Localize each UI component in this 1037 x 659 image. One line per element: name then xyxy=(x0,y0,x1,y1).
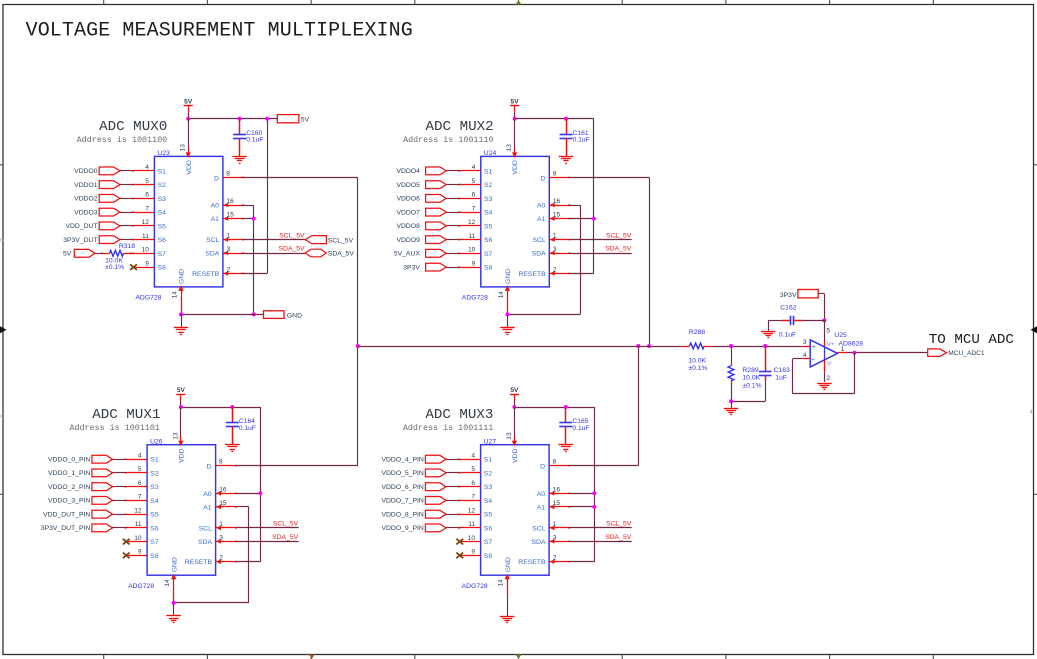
ground below op-amp xyxy=(817,384,832,390)
MUX3 wire A0 to pullup xyxy=(570,493,595,495)
svg-text:5: 5 xyxy=(472,178,476,185)
wire 3P3V to op-amp V+ xyxy=(818,294,824,321)
input port VDDO_1_PIN xyxy=(48,469,113,477)
svg-text:RESETB: RESETB xyxy=(518,271,546,278)
svg-text:11: 11 xyxy=(135,521,142,528)
MUX1 wire tag to S3 xyxy=(113,486,125,488)
MUX3 node 5V stem junction xyxy=(512,405,516,409)
wire C162 left stem to ground xyxy=(768,320,790,331)
MUX3 wire tag to S2 xyxy=(446,472,458,474)
MUX1 pin S7 (pin 10) stub xyxy=(125,541,147,543)
svg-text:1: 1 xyxy=(219,521,223,528)
svg-text:13: 13 xyxy=(180,144,187,152)
svg-text:U23: U23 xyxy=(157,150,170,157)
MUX3 wire D output xyxy=(570,465,639,467)
svg-text:7: 7 xyxy=(471,494,475,501)
power port 3P3V xyxy=(780,290,818,299)
svg-text:SDA_5V: SDA_5V xyxy=(279,246,306,253)
svg-text:SDA_5V: SDA_5V xyxy=(605,246,632,253)
wire R289/C163 bottom rail xyxy=(731,401,765,403)
svg-text:3P3V: 3P3V xyxy=(780,292,797,299)
svg-text:VDDO_0_PIN: VDDO_0_PIN xyxy=(48,457,90,464)
svg-text:ADG728: ADG728 xyxy=(135,295,161,302)
MUX1 wire 5V top rail xyxy=(181,407,261,409)
svg-text:VDDO1: VDDO1 xyxy=(74,182,98,189)
MUX3 pin S5 (pin 12) stub xyxy=(458,513,480,515)
MUX0 pin S2 (pin 5) stub xyxy=(132,184,154,186)
svg-text:ADG728: ADG728 xyxy=(462,295,488,302)
MUX3 wire VDD pin stem xyxy=(512,407,517,446)
svg-text:S6: S6 xyxy=(484,525,493,532)
MUX1 pin S1 (pin 4) stub xyxy=(125,458,147,460)
svg-text:4: 4 xyxy=(472,164,476,171)
MUX2 wire cap upper stem xyxy=(566,119,568,134)
wire R289 bottom to rail xyxy=(731,381,733,401)
svg-text:0.1uF: 0.1uF xyxy=(246,137,263,144)
input port VDDO9 xyxy=(396,236,446,244)
svg-text:V-: V- xyxy=(827,361,833,368)
MUX2 pin S1 (pin 4) stub xyxy=(458,170,480,172)
MUX1 wire A0 to pullup xyxy=(236,493,260,495)
MUX2 pin S5 (pin 12) stub xyxy=(458,225,480,227)
svg-text:SDA: SDA xyxy=(532,251,546,258)
MUX1 wire tag to S6 xyxy=(113,527,125,529)
MUX2 C161 value label xyxy=(573,130,590,144)
svg-text:5V_AUX: 5V_AUX xyxy=(394,251,421,258)
svg-text:9: 9 xyxy=(145,260,149,267)
ADG728 mux U27 xyxy=(462,438,549,590)
svg-text:1: 1 xyxy=(553,521,557,528)
MUX2 wire tag to S2 xyxy=(446,184,458,186)
MUX2 5V power symbol xyxy=(510,99,519,113)
svg-text:VDDO_6_PIN: VDDO_6_PIN xyxy=(381,484,423,491)
MUX0 wire tag to S2 xyxy=(120,184,132,186)
svg-text:3: 3 xyxy=(803,339,807,346)
op-amp U25 AD8628 xyxy=(810,340,837,368)
MUX3 pin RESETB (pin 2) stub xyxy=(549,559,570,564)
MUX2 node GND stem junction xyxy=(505,312,509,316)
svg-text:11: 11 xyxy=(142,233,149,240)
MUX2 wire D output xyxy=(570,177,649,179)
input port VDDO_9_PIN xyxy=(381,524,446,532)
svg-text:3: 3 xyxy=(227,246,231,253)
svg-text:8: 8 xyxy=(553,170,557,177)
MUX3 wire GND pin stem xyxy=(505,574,510,597)
MUX3 C165 value label xyxy=(572,418,589,432)
wire R288 to node xyxy=(704,346,802,348)
MUX2 wire A1 to pullup xyxy=(570,218,594,220)
capacitor C163 1uF xyxy=(759,372,771,376)
svg-text:+: + xyxy=(812,342,817,351)
svg-text:ADC MUX0: ADC MUX0 xyxy=(99,119,167,135)
svg-text:C: C xyxy=(0,414,4,420)
svg-text:S1: S1 xyxy=(150,457,159,464)
node output/feedback junction xyxy=(852,351,856,355)
MUX1 wire RESETB to 5V xyxy=(236,561,260,563)
svg-text:VDD_DUT: VDD_DUT xyxy=(65,223,97,230)
MUX3 wire 5V top rail xyxy=(514,407,594,409)
MUX2 pin S7 (pin 10) stub xyxy=(458,253,480,255)
MUX2 pin S3 (pin 6) stub xyxy=(458,198,480,200)
svg-text:VDDO_8_PIN: VDDO_8_PIN xyxy=(381,512,423,519)
power port GND (MUX0 rail) xyxy=(264,311,303,320)
MUX1 wire GND rail xyxy=(174,602,249,604)
svg-text:14: 14 xyxy=(171,291,178,299)
node R288/R289 junction xyxy=(729,344,733,348)
MUX0 node junction xyxy=(252,312,256,316)
MUX2 wire SDA net xyxy=(570,253,632,255)
MUX0 wire A1 to pulldown xyxy=(244,218,254,220)
svg-text:5V: 5V xyxy=(184,99,193,106)
svg-text:7: 7 xyxy=(472,205,476,212)
svg-text:10.0K: 10.0K xyxy=(688,357,706,364)
MUX3 pin S1 (pin 4) stub xyxy=(458,458,480,460)
MUX1 pin S6 (pin 11) stub xyxy=(125,527,147,529)
MUX3 wire 5V pullup vertical xyxy=(594,407,596,562)
input port VDDO4 xyxy=(396,167,446,175)
svg-text:VOLTAGE MEASUREMENT MULTIPLEXI: VOLTAGE MEASUREMENT MULTIPLEXING xyxy=(26,20,413,43)
svg-text:2: 2 xyxy=(553,555,557,562)
MUX2 wire A0 pulldown vertical xyxy=(580,205,582,314)
ground below C162 xyxy=(761,332,776,338)
MUX2 wire tag to S5 xyxy=(446,225,458,227)
svg-text:A1: A1 xyxy=(537,504,546,511)
svg-text:±0.1%: ±0.1% xyxy=(742,383,761,390)
svg-text:0.1uF: 0.1uF xyxy=(572,425,589,432)
svg-text:R289: R289 xyxy=(742,367,758,374)
MUX2 pin S8 (pin 9) stub xyxy=(458,266,480,268)
MUX3 wire tag to S4 xyxy=(446,500,458,502)
capacitor C165 0.1uF xyxy=(559,423,572,427)
MUX1 pin RESETB (pin 2) stub xyxy=(216,559,237,564)
svg-text:SCL_5V: SCL_5V xyxy=(606,232,632,239)
svg-text:ADG728: ADG728 xyxy=(128,583,154,590)
MUX1 wire A0 pullup vertical xyxy=(260,407,262,562)
svg-text:VDD_DUT_PIN: VDD_DUT_PIN xyxy=(43,512,90,519)
MUX2 wire tag to S4 xyxy=(446,212,458,214)
MUX1 5V power symbol xyxy=(176,387,185,401)
svg-text:S7: S7 xyxy=(158,251,167,258)
svg-text:3P3V_DUT: 3P3V_DUT xyxy=(63,237,97,244)
MUX2 wire 5V stem to rail xyxy=(514,112,516,119)
svg-text:S7: S7 xyxy=(484,251,493,258)
resistor R289 10.0K xyxy=(728,366,734,381)
MUX2 node cap junction xyxy=(564,117,568,121)
svg-text:SCL: SCL xyxy=(532,525,545,532)
svg-text:9: 9 xyxy=(471,549,475,556)
MUX2 wire tag to S3 xyxy=(446,198,458,200)
input port VDDO5 xyxy=(396,181,446,189)
MUX1 C164 value label xyxy=(239,418,256,432)
MUX2 node 5V stem junction xyxy=(513,117,517,121)
input port 5V_AUX xyxy=(394,249,446,257)
ground below R289 xyxy=(724,409,739,415)
svg-text:SCL: SCL xyxy=(199,525,212,532)
svg-text:S3: S3 xyxy=(150,484,159,491)
resistor R288 10.0K xyxy=(690,343,705,349)
svg-text:A0: A0 xyxy=(537,491,546,498)
MUX1 pin SCL (pin 1) stub xyxy=(216,526,237,531)
svg-text:2: 2 xyxy=(219,555,223,562)
input port VDD_DUT_PIN xyxy=(43,510,112,518)
svg-text:A1: A1 xyxy=(211,216,220,223)
svg-text:±0.1%: ±0.1% xyxy=(688,365,707,372)
svg-text:A0: A0 xyxy=(203,491,212,498)
svg-text:A1: A1 xyxy=(537,216,546,223)
MUX2 pin S6 (pin 11) stub xyxy=(458,239,480,241)
resistor R318 xyxy=(110,250,124,256)
svg-text:5: 5 xyxy=(826,328,830,335)
MUX1 wire GND drop xyxy=(173,603,175,616)
svg-text:5: 5 xyxy=(471,466,475,473)
svg-text:5V: 5V xyxy=(301,117,310,124)
MUX0 wire 5V stem to rail xyxy=(188,112,190,119)
svg-text:VDDO_3_PIN: VDDO_3_PIN xyxy=(48,498,90,505)
svg-text:S8: S8 xyxy=(484,265,493,272)
MUX0 pin RESETB (pin 2) stub xyxy=(223,271,244,276)
input port 3P3V xyxy=(403,263,446,271)
svg-text:S1: S1 xyxy=(484,457,493,464)
svg-text:S4: S4 xyxy=(484,498,493,505)
svg-text:VDDO4: VDDO4 xyxy=(396,168,420,175)
MUX1 node cap junction xyxy=(230,405,234,409)
MUX2 wire SCL net xyxy=(570,239,632,241)
wire C162 right stem xyxy=(794,320,824,322)
svg-text:15: 15 xyxy=(219,500,227,507)
MUX2 wire 5V top rail xyxy=(515,118,594,120)
svg-text:4: 4 xyxy=(145,164,149,171)
MUX3 wire 5V stem to rail xyxy=(514,401,516,408)
MUX1 wire tag to S5 xyxy=(113,514,125,516)
svg-text:RESETB: RESETB xyxy=(192,271,220,278)
svg-text:1: 1 xyxy=(553,233,557,240)
svg-text:11: 11 xyxy=(468,521,475,528)
svg-text:15: 15 xyxy=(553,500,561,507)
svg-text:GND: GND xyxy=(505,557,512,572)
svg-text:U27: U27 xyxy=(484,438,497,445)
svg-text:S5: S5 xyxy=(484,512,493,519)
MUX3 pin S2 (pin 5) stub xyxy=(458,472,480,474)
MUX1 pin A0 (pin 16) stub xyxy=(216,491,237,496)
svg-text:S5: S5 xyxy=(158,223,167,230)
MUX1 pin S5 (pin 12) stub xyxy=(125,513,147,515)
svg-text:D: D xyxy=(214,175,219,182)
svg-text:SDA_5V: SDA_5V xyxy=(328,251,355,258)
MUX0 wire GND pin stem xyxy=(178,285,183,314)
MUX0 pin S1 (pin 4) stub xyxy=(132,170,154,172)
svg-text:5V: 5V xyxy=(511,99,520,106)
MUX0 pin SDA (pin 3) stub xyxy=(223,251,244,256)
MUX0 pin S4 (pin 7) stub xyxy=(132,211,154,213)
svg-text:VDDO_2_PIN: VDDO_2_PIN xyxy=(48,484,90,491)
MUX0 wire R318 to S7 xyxy=(124,253,133,255)
svg-text:V+: V+ xyxy=(827,341,835,348)
MUX0 wire VDD pin stem xyxy=(186,119,191,158)
MUX1 wire tag to S1 xyxy=(113,459,125,461)
wire main analog bus xyxy=(358,346,683,348)
MUX0 node cap junction xyxy=(238,117,242,121)
MUX0 wire GND rail xyxy=(181,314,264,316)
input port VDDO_8_PIN xyxy=(381,510,446,518)
MUX2 pin S2 (pin 5) stub xyxy=(458,184,480,186)
MUX0 wire 5V top rail xyxy=(188,118,277,120)
svg-text:S8: S8 xyxy=(484,553,493,560)
ground MUX3 xyxy=(500,617,515,623)
MUX0 5V power symbol xyxy=(184,99,193,113)
MUX3 5V power symbol xyxy=(510,387,519,401)
input port 3P3V_DUT_PIN xyxy=(41,524,113,532)
MUX3 pin A1 (pin 15) stub xyxy=(549,505,570,510)
svg-text:4: 4 xyxy=(471,453,475,460)
capacitor C161 0.1uF xyxy=(560,135,573,139)
svg-text:8: 8 xyxy=(226,170,230,177)
svg-text:6: 6 xyxy=(472,192,476,199)
svg-text:GND: GND xyxy=(505,269,512,284)
MUX1 wire D output xyxy=(236,465,357,467)
svg-text:S6: S6 xyxy=(158,237,167,244)
svg-text:1uF: 1uF xyxy=(775,375,787,382)
MUX0 wire RESETB to 5V xyxy=(244,273,268,275)
svg-text:ADG728: ADG728 xyxy=(462,583,488,590)
svg-text:7: 7 xyxy=(138,494,142,501)
svg-text:U24: U24 xyxy=(484,150,497,157)
svg-text:VDD: VDD xyxy=(179,448,186,462)
svg-text:VDDO_4_PIN: VDDO_4_PIN xyxy=(381,457,423,464)
svg-text:S2: S2 xyxy=(484,470,493,477)
input port VDDO8 xyxy=(396,222,446,230)
svg-text:VDDO_1_PIN: VDDO_1_PIN xyxy=(48,470,90,477)
svg-text:11: 11 xyxy=(468,233,475,240)
MUX1 pin A1 (pin 15) stub xyxy=(216,505,237,510)
port SDA_5V tag xyxy=(305,249,354,258)
svg-text:SCL: SCL xyxy=(532,237,545,244)
svg-text:3: 3 xyxy=(553,246,557,253)
svg-text:A1: A1 xyxy=(203,504,212,511)
C163 labels xyxy=(774,367,790,381)
wire bottom rail to ground xyxy=(731,401,733,408)
MUX1 wire tag to S2 xyxy=(113,472,125,474)
input port VDDO1 xyxy=(74,181,120,189)
svg-text:14: 14 xyxy=(498,579,505,587)
node C163 junction xyxy=(763,344,767,348)
svg-text:GND: GND xyxy=(171,557,178,572)
svg-text:A0: A0 xyxy=(211,203,220,210)
MUX3 wire RESETB to 5V xyxy=(570,561,595,563)
svg-text:SCL_5V: SCL_5V xyxy=(279,232,305,239)
MUX0 wire tag to S5 xyxy=(120,225,132,227)
svg-text:S4: S4 xyxy=(158,210,167,217)
svg-text:SDA: SDA xyxy=(198,539,212,546)
MUX1 no-connect X on S7 xyxy=(123,539,130,545)
MUX2 wire tag to S1 xyxy=(446,170,458,172)
svg-text:ADC MUX2: ADC MUX2 xyxy=(426,119,494,135)
capacitor C164 0.1uF xyxy=(226,423,239,427)
capacitor C162 0.1uF xyxy=(791,316,794,325)
svg-text:6: 6 xyxy=(138,480,142,487)
MUX1 wire cap upper stem xyxy=(232,407,234,422)
MUX1 node 5V stem junction xyxy=(179,405,183,409)
MUX1 wire cap lower stem xyxy=(232,426,234,444)
ground below C161 xyxy=(559,157,574,164)
svg-text:VDD: VDD xyxy=(512,160,519,174)
svg-text:S2: S2 xyxy=(484,182,493,189)
MUX0 wire SCL net xyxy=(244,239,305,241)
MUX2 wire D drop to bus xyxy=(649,177,651,346)
svg-text:VDDO2: VDDO2 xyxy=(74,196,98,203)
capacitor C160 0.1uF xyxy=(233,135,246,139)
MUX0 no-connect X on S8 xyxy=(130,264,137,270)
MUX3 no-connect X on S8 xyxy=(456,553,463,559)
input port VDDO_3_PIN xyxy=(48,497,113,505)
svg-text:10: 10 xyxy=(468,247,476,254)
svg-text:VDDO_9_PIN: VDDO_9_PIN xyxy=(381,525,423,532)
wire bus red stub into R288 xyxy=(682,346,689,348)
svg-text:Address is 1001110: Address is 1001110 xyxy=(403,135,493,145)
MUX3 wire SDA net xyxy=(570,541,632,543)
MUX3 wire tag to S3 xyxy=(446,486,458,488)
svg-text:D: D xyxy=(540,464,545,471)
svg-text:U25: U25 xyxy=(834,332,847,339)
svg-text:5V: 5V xyxy=(510,387,519,394)
svg-text:12: 12 xyxy=(134,508,142,515)
svg-text:S8: S8 xyxy=(150,553,159,560)
MUX1 pin D (pin 8) stub xyxy=(216,465,237,467)
input port VDDO_0_PIN xyxy=(48,455,113,463)
svg-text:6: 6 xyxy=(145,192,149,199)
svg-text:U26: U26 xyxy=(150,438,163,445)
MUX3 pin S8 (pin 9) stub xyxy=(458,555,480,557)
power port 5V (MUX0 rail) xyxy=(277,115,309,124)
wire op-amp output stub xyxy=(837,352,848,354)
R318 labels 10.0K ±0.1% xyxy=(105,243,135,271)
MUX0 pin A1 (pin 15) stub xyxy=(223,216,244,221)
MUX0 wire 5V tag to R318 xyxy=(95,253,110,255)
svg-text:Address is 1001111: Address is 1001111 xyxy=(403,423,493,433)
input port VDDO_7_PIN xyxy=(381,497,446,505)
svg-text:S5: S5 xyxy=(484,223,493,230)
svg-text:VDDO_5_PIN: VDDO_5_PIN xyxy=(381,470,423,477)
svg-text:C162: C162 xyxy=(780,304,796,311)
svg-text:8: 8 xyxy=(219,459,223,466)
svg-text:4: 4 xyxy=(138,453,142,460)
MUX2 pin S4 (pin 7) stub xyxy=(458,211,480,213)
svg-text:GND: GND xyxy=(287,313,302,320)
MUX0 wire cap upper stem xyxy=(239,119,241,134)
MUX1 pin S2 (pin 5) stub xyxy=(125,472,147,474)
MUX1 wire SCL net xyxy=(236,527,298,529)
svg-text:MCU_ADC1: MCU_ADC1 xyxy=(948,350,985,357)
MUX0 wire GND drop xyxy=(181,314,183,327)
MUX3 wire tag to S1 xyxy=(446,459,458,461)
svg-text:0.1uF: 0.1uF xyxy=(779,332,796,339)
svg-text:B: B xyxy=(0,238,4,244)
MUX2 node junction xyxy=(592,217,596,221)
MUX2 wire VDD pin stem xyxy=(512,119,517,158)
MUX2 node junction xyxy=(647,344,651,348)
MUX3 pin A0 (pin 16) stub xyxy=(549,491,570,496)
svg-text:VDDO8: VDDO8 xyxy=(396,223,420,230)
MUX3 no-connect X on S7 xyxy=(456,539,463,545)
svg-text:SCL: SCL xyxy=(206,237,219,244)
svg-text:GND: GND xyxy=(179,269,186,284)
svg-text:ADC MUX3: ADC MUX3 xyxy=(425,407,493,423)
svg-text:S3: S3 xyxy=(484,484,493,491)
svg-text:12: 12 xyxy=(468,508,476,515)
MUX3 wire SCL net xyxy=(570,527,632,529)
svg-text:C163: C163 xyxy=(774,367,790,374)
wire feedback loop xyxy=(793,353,855,394)
MUX2 wire RESETB to 5V xyxy=(570,273,594,275)
